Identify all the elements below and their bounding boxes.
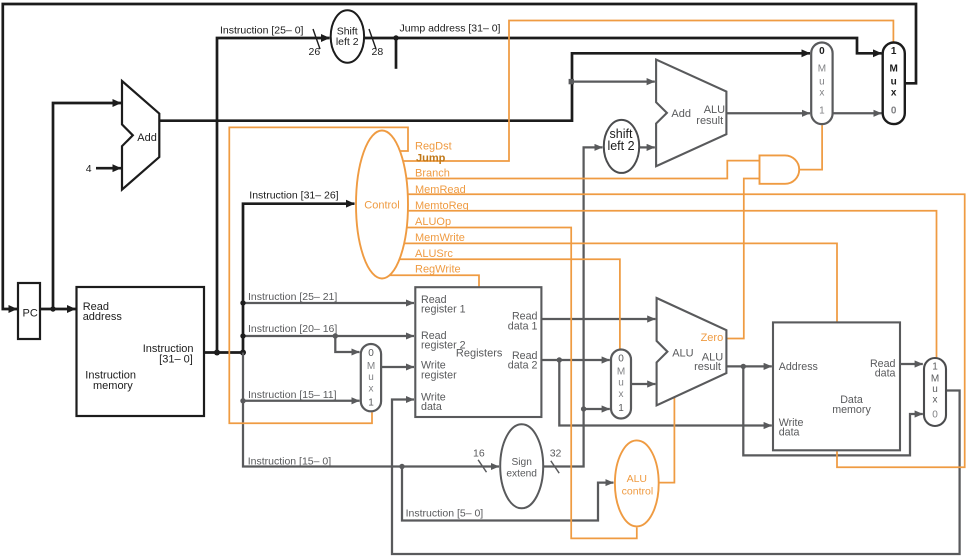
svg-text:Registers: Registers [456,348,503,360]
adder Add (PC+4) [122,81,159,190]
PC register [18,283,40,339]
wire: MemWrite control to data memory [404,243,837,323]
svg-text:MemtoReg: MemtoReg [415,200,469,212]
sign extend [500,424,543,508]
tick 26-bit [313,29,320,49]
wire: sign extend value to ALUSrc mux input 1 [584,408,610,410]
mux regdst [361,344,381,411]
svg-text:memory: memory [93,380,133,392]
wire: memory read data to memtoreg mux input 1 [900,363,923,365]
main ALU [657,298,727,405]
svg-text:RegDst: RegDst [415,141,452,153]
wire: branch mux output to jump mux input 0 [833,112,882,114]
mux ALUSrc [611,350,631,419]
svg-text:result: result [696,115,723,127]
wire: instruction memory output [204,351,243,354]
svg-text:0: 0 [932,410,938,421]
wire: Jump control to jump mux select [403,21,893,162]
svg-text:data 1: data 1 [508,320,538,332]
wire: Add output PC+4 to branch mux input 0 [159,53,810,120]
shift left 2 (jump) [331,10,364,63]
wire: Instruction[25-21] to read register 1 [243,302,414,304]
wire: ALU result down to memtoreg mux input 0 [743,366,923,455]
wire: PC+4[31-28] stub [395,38,398,69]
svg-text:Address: Address [779,361,818,373]
svg-text:16: 16 [473,448,485,460]
wire: read data 2 to ALUSrc mux input 0 [541,359,609,361]
svg-text:data: data [875,368,896,380]
tick 32-bit [551,461,559,473]
svg-text:1: 1 [368,398,374,409]
wire: shift left 2 output into branch adder [639,146,655,148]
svg-text:u: u [819,77,825,88]
svg-text:ALU: ALU [627,473,647,485]
svg-text:32: 32 [550,448,562,460]
svg-text:[31– 0]: [31– 0] [159,354,193,366]
svg-text:x: x [819,88,824,99]
node: jump address junction [393,35,398,40]
wire: Instruction[5-0] into ALU control [402,467,614,521]
wire: AND gate output to branch mux select [799,125,822,170]
svg-text:Instruction [5– 0]: Instruction [5– 0] [406,508,484,520]
shift left 2 (branch) [604,120,639,173]
svg-text:M: M [617,367,625,378]
wire: read data 2 down to memory write data [559,360,772,426]
wire: branch adder result to branch mux input 1 [726,112,810,114]
svg-text:0: 0 [618,354,624,365]
svg-text:M: M [367,361,375,372]
svg-text:data 2: data 2 [508,360,538,372]
svg-text:left 2: left 2 [607,139,634,153]
svg-text:M: M [818,64,826,75]
wire: Branch control to AND gate [406,161,759,179]
svg-text:Jump: Jump [416,153,446,165]
svg-text:MemRead: MemRead [415,184,466,196]
svg-text:0: 0 [368,348,374,359]
wire: Instruction[20-16] branch to regdst mux input 0 [335,336,359,352]
svg-text:result: result [694,361,721,373]
wire: Instruction[15-11] to regdst mux input 1 [243,400,360,402]
svg-text:Instruction [25– 21]: Instruction [25– 21] [248,291,337,303]
svg-text:u: u [368,372,374,383]
svg-text:1: 1 [932,362,938,373]
svg-text:0: 0 [819,46,825,57]
svg-text:extend: extend [506,469,537,480]
node: junction sign-extend branch [581,406,586,411]
svg-text:Instruction [20– 16]: Instruction [20– 16] [248,323,337,335]
wire: ALU result to data memory address [726,365,771,367]
svg-text:left 2: left 2 [336,36,359,48]
node: PC output junction [50,306,55,311]
svg-text:Jump address [31– 0]: Jump address [31– 0] [400,23,501,35]
svg-text:Add: Add [671,108,691,120]
wire: MemRead control to data memory [408,194,965,467]
svg-text:data: data [779,427,800,439]
svg-text:RegWrite: RegWrite [415,264,461,276]
mux jump [883,43,905,125]
svg-text:Instruction [31– 26]: Instruction [31– 26] [249,189,338,201]
svg-text:register 1: register 1 [421,303,466,315]
svg-text:Branch: Branch [415,168,450,180]
node: junction [25-21] [240,300,245,305]
svg-text:u: u [618,378,624,389]
svg-text:register: register [421,369,457,381]
tick 16-bit [478,460,486,472]
mux branch [811,43,832,125]
wire: ALUOp control to ALU control unit [407,228,637,539]
tick 28-bit [369,29,376,49]
svg-text:MemWrite: MemWrite [415,232,465,244]
svg-text:M: M [890,64,898,75]
svg-text:x: x [891,88,897,99]
wire: RegDst control to regdst mux select [229,127,408,423]
svg-text:Instruction [15– 11]: Instruction [15– 11] [248,389,337,401]
svg-text:Zero: Zero [701,332,724,344]
wire: Instruction[31-26] into Control [243,204,355,353]
svg-text:Add: Add [137,132,157,144]
wire: ALU control output to ALU [653,398,675,483]
svg-text:Instruction [25– 0]: Instruction [25– 0] [220,25,304,37]
node: junction [15-11] [240,398,245,403]
svg-text:ALUOp: ALUOp [415,216,451,228]
ALU control unit [615,440,659,526]
svg-text:4: 4 [86,163,92,175]
wire: instruction bus up and Instruction[25-0] into shift left 2 [217,38,330,353]
svg-text:x: x [619,389,624,400]
wire: instruction bus lower segment and Instruction[15-0] into sign extend [243,353,499,467]
wire: jump mux output to PC (around top and left) [3,4,916,309]
svg-text:1: 1 [891,46,897,57]
svg-text:PC: PC [23,308,38,320]
node: instruction bus junction at x243 [240,350,246,356]
svg-text:1: 1 [819,106,825,117]
wire: ALUSrc mux output to ALU [631,383,655,385]
node: instruction bus junction at x217 [214,350,220,356]
svg-text:u: u [932,384,938,395]
svg-text:M: M [931,374,939,385]
svg-text:x: x [369,384,374,395]
svg-text:memory: memory [832,404,871,416]
svg-text:Control: Control [364,200,399,212]
wire: ALUSrc control to ALUSrc mux select [400,259,620,350]
wire: RegWrite control to registers [390,275,479,288]
node: junction PC+4 to adder (square) [569,79,574,84]
node: junction ALU result [741,364,746,369]
svg-text:ALU: ALU [672,348,693,360]
wire: regdst mux output to write register [381,366,414,368]
mux memtoreg [924,358,946,426]
node: junction on [20-16] [333,333,338,338]
node: junction [15-0]/[5-0] [399,464,404,469]
svg-text:26: 26 [309,46,321,58]
svg-text:0: 0 [891,106,897,117]
registers file [415,287,541,417]
AND gate (branch) [760,155,800,183]
svg-text:1: 1 [618,403,624,414]
svg-text:Sign: Sign [512,457,532,468]
wire: Instruction[20-16] to read register 2 [243,335,414,337]
wire: PC value up to Add input [53,103,121,309]
wire: PC output to instruction memory read address [40,308,76,311]
wire: read data 1 to ALU [541,318,655,320]
wire: constant 4 into Add [96,167,121,170]
svg-text:Instruction [15– 0]: Instruction [15– 0] [248,456,332,468]
data memory [773,322,900,450]
wire: jump address from shift left 2 to jump mux input 1 [364,38,881,53]
wire: sign extend output up to shift left 2 [543,147,602,466]
svg-text:data: data [421,401,442,413]
svg-text:28: 28 [372,46,384,58]
node: junction [20-16] [240,333,245,338]
instruction memory [77,287,205,416]
node: junction read data 2 [557,357,562,362]
control unit [356,131,408,279]
svg-text:address: address [83,311,123,323]
svg-text:control: control [622,486,654,498]
svg-text:u: u [891,77,897,88]
wire: PC+4 into branch adder [571,80,655,82]
wire: Zero flag to AND gate [726,179,759,339]
wire: MemtoReg control to memtoreg mux select [408,211,937,359]
branch adder Add [656,60,726,167]
svg-text:ALUSrc: ALUSrc [415,248,453,260]
svg-text:x: x [933,395,938,406]
wire: memtoreg mux output back to register write data [392,391,960,555]
